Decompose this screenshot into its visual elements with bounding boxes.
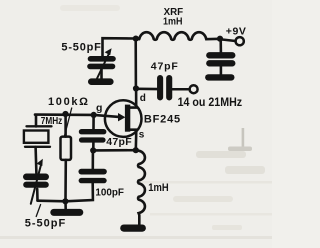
transistor Q1 gate arrowhead (118, 113, 125, 121)
capacitor C3 47pF plate right (166, 78, 172, 97)
ground under L2 (124, 225, 143, 232)
node top (junction dot) (133, 36, 139, 42)
capacitor C1 trimmer arrow (97, 53, 110, 79)
crystal X1 lead top (35, 115, 38, 127)
wire bottom-left node (38, 199, 67, 202)
capacitor C4 5-50pF trimmer plate bottom (26, 182, 45, 188)
svg-text:s: s (139, 129, 145, 140)
ground under node (54, 209, 80, 216)
capacitor C4 5-50pF trimmer plate top (26, 174, 45, 181)
crystal X1 lead bottom (34, 147, 37, 173)
wire to +9V terminal (220, 39, 235, 41)
node resistor top (junction dot) (62, 111, 68, 117)
wire C3 to output terminal (172, 88, 189, 91)
capacitor C5 lead bottom (92, 143, 95, 151)
capacitor C5 47pF plate top (82, 129, 104, 134)
node source (junction dot) (133, 147, 139, 153)
ground stub bottom-left (64, 201, 67, 210)
svg-text:1mH: 1mH (148, 182, 168, 194)
transistor Q1 source lead (129, 130, 136, 150)
capacitor C4 lead bottom (36, 189, 39, 201)
capacitor C2 plate top (209, 52, 232, 58)
resistor R1 lead bottom (64, 160, 67, 201)
node gate (junction dot) (91, 112, 97, 118)
capacitor C2 bypass lead (219, 39, 222, 53)
svg-text:+9V: +9V (226, 25, 246, 37)
svg-text:47pF: 47pF (106, 136, 132, 148)
inductor L2 1mH (136, 150, 145, 224)
transistor Q1 drain lead (129, 90, 136, 108)
wire top-left horizontal (trimmer to top node) (103, 38, 136, 56)
label leader line 100k (65, 108, 72, 136)
capacitor C1 5-50pF trimmer plate bottom (90, 64, 113, 70)
svg-text:7MHz: 7MHz (41, 115, 63, 127)
resistor R1 100k lead top (64, 114, 67, 137)
wire C6 bottom to node (65, 183, 93, 201)
label leader line 5-50pF bottom (36, 205, 40, 217)
svg-text:14 ou 21MHz: 14 ou 21MHz (178, 95, 243, 109)
ground under C2 (208, 74, 231, 80)
wire vertical rail top node to drain node (134, 39, 137, 89)
terminal output 14 ou 21MHz (190, 85, 198, 93)
capacitor C6 100pF plate top (81, 169, 104, 175)
transistor Q1 channel bar (125, 105, 130, 132)
svg-text:BF245: BF245 (144, 113, 180, 125)
capacitor C2 lead to ground (220, 66, 223, 75)
wire node to source node (93, 149, 136, 152)
capacitor C5 47pF lead top (92, 117, 95, 130)
terminal +9V (236, 37, 244, 45)
capacitor C1 5-50pF trimmer plate top (91, 56, 114, 62)
wire gate (crystal to transistor) (35, 115, 119, 117)
capacitor C6 100pF lead top (92, 150, 95, 169)
crystal X1 top plate (27, 125, 52, 127)
transistor Q1 BF245 circle (105, 100, 142, 137)
capacitor C4 trimmer arrow (31, 164, 41, 204)
svg-text:1mH: 1mH (163, 16, 183, 28)
crystal X1 bottom plate (25, 146, 50, 148)
capacitor C3 47pF plate left (157, 78, 163, 97)
inductor L1 XRF 1mH choke (139, 32, 220, 40)
node bottom-left (junction dot) (62, 198, 68, 204)
resistor R1 body (61, 137, 72, 160)
node C5/C6 (junction dot) (90, 147, 96, 153)
crystal X1 box (24, 131, 49, 143)
svg-text:5-50pF: 5-50pF (61, 42, 101, 54)
node drain (junction dot) (133, 85, 139, 91)
capacitor C5 47pF plate bottom (82, 137, 104, 142)
svg-text:47pF: 47pF (151, 61, 179, 73)
svg-text:d: d (140, 93, 146, 104)
node at choke right (junction dot) (217, 36, 223, 42)
svg-text:100pF: 100pF (95, 186, 124, 198)
capacitor C1 trimmer lead to ground (100, 69, 103, 79)
capacitor C6 100pF plate bottom (81, 178, 104, 183)
svg-text:g: g (96, 102, 102, 114)
capacitor C2 plate bottom (209, 60, 232, 66)
ground under C1 (91, 78, 110, 85)
svg-text:5-50pF: 5-50pF (25, 218, 66, 230)
svg-text:100kΩ: 100kΩ (48, 96, 88, 108)
wire drain node to C3 (136, 88, 158, 91)
